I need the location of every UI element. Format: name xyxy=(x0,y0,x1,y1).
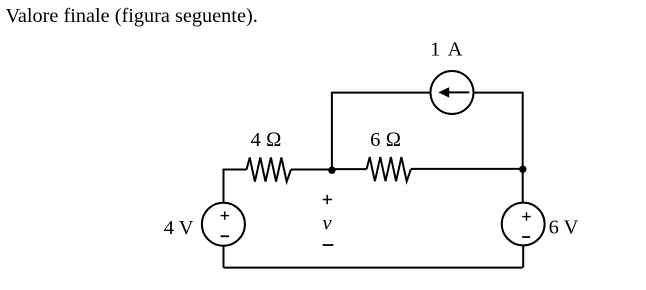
wire: node A to R2 left xyxy=(332,168,367,170)
wire: node A up and right to current source xyxy=(332,93,430,170)
minus sign inside V1 xyxy=(221,235,229,237)
plus sign inside V1 xyxy=(221,211,229,219)
wire: R1 right to node A xyxy=(291,169,332,171)
wire: bottom rail xyxy=(224,267,523,269)
wire: R2 right to node B xyxy=(411,168,523,170)
wire: 6V bottom down to bottom rail xyxy=(522,245,524,267)
svg-text:6 V: 6 V xyxy=(549,217,579,239)
current source I1 circle (1 A) xyxy=(431,71,474,114)
wire: bottom rail up to 4V source bottom xyxy=(223,246,225,268)
plus sign inside V2 xyxy=(522,212,530,220)
svg-text:Valore finale (figura seguente: Valore finale (figura seguente). xyxy=(6,5,258,27)
svg-text:4 V: 4 V xyxy=(164,217,194,239)
svg-text:1 A: 1 A xyxy=(430,38,464,60)
wire: node B down to 6V source top xyxy=(522,169,524,202)
wire: 4V source top to R1 left xyxy=(224,170,247,203)
svg-text:4 Ω: 4 Ω xyxy=(250,129,281,151)
junction dot node B xyxy=(519,166,526,173)
junction dot node A xyxy=(328,167,335,174)
node v plus polarity mark xyxy=(323,195,332,204)
voltage source V1 circle (4 V) xyxy=(202,203,245,246)
wire: current source right to top-right corner down to node B xyxy=(474,93,523,170)
minus sign inside V2 xyxy=(522,236,530,238)
voltage source V2 circle (6 V) xyxy=(502,203,545,246)
resistor R1 (4 ohm) zigzag xyxy=(247,158,291,182)
node v minus polarity mark xyxy=(323,244,334,246)
svg-text:6 Ω: 6 Ω xyxy=(370,129,401,151)
resistor R2 (6 ohm) zigzag xyxy=(367,157,411,181)
svg-text:v: v xyxy=(322,212,332,234)
arrow of current source I1 (points left) xyxy=(438,87,469,97)
